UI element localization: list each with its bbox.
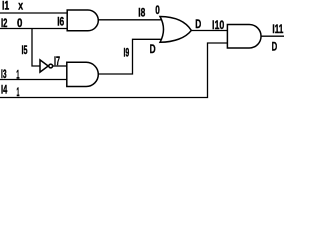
svg-text:1: 1 [17, 87, 20, 99]
wire I9 (AND G3 output up to OR gate lower input) [98, 39, 162, 74]
inverter G2 (input I5 / output I7) [40, 60, 48, 72]
wire I2 (input net I2) [0, 28, 68, 30]
svg-text:I1: I1 [2, 0, 10, 12]
svg-text:I4: I4 [1, 85, 8, 97]
svg-text:1: 1 [16, 69, 20, 81]
or-gate G5 (inputs I8, I9 / output I10) [160, 17, 191, 43]
wire I1 (input net I1) [0, 12, 68, 14]
wire I10 (OR gate output to AND G4) [191, 30, 227, 32]
svg-text:0: 0 [155, 5, 160, 17]
wire I5 (fanout branch of I2 down to inverter) [32, 29, 40, 67]
svg-text:I7: I7 [54, 56, 60, 68]
svg-text:0: 0 [17, 18, 22, 30]
svg-text:D: D [150, 44, 156, 56]
svg-text:I9: I9 [124, 48, 130, 60]
and-gate G4 (inputs I10, I4 / output I11) [227, 25, 261, 49]
wire I11 (AND G4 output net) [261, 35, 284, 37]
svg-text:I10: I10 [212, 20, 224, 32]
svg-text:x: x [18, 1, 23, 13]
svg-text:I6: I6 [57, 17, 64, 29]
svg-text:D: D [195, 19, 201, 31]
wire I7 (inverter output to AND gate G3) [53, 65, 67, 67]
wire I4 (input net I4, bottom route to AND gate G4) [0, 43, 227, 98]
and-gate G3 (inputs I7, I3 / output I9) [67, 62, 98, 86]
svg-text:I8: I8 [138, 8, 145, 20]
svg-text:I5: I5 [22, 45, 28, 57]
svg-text:I11: I11 [272, 24, 283, 36]
wire I8 (AND G1 output to OR gate) [98, 19, 161, 21]
svg-text:I2: I2 [1, 18, 7, 30]
and-gate G1 (inputs I1, I6 / output I8) [67, 10, 98, 31]
svg-text:I3: I3 [1, 69, 7, 81]
inverter bubble [49, 64, 53, 68]
wire I3 (input net I3) [0, 79, 67, 81]
svg-text:D: D [272, 42, 278, 54]
